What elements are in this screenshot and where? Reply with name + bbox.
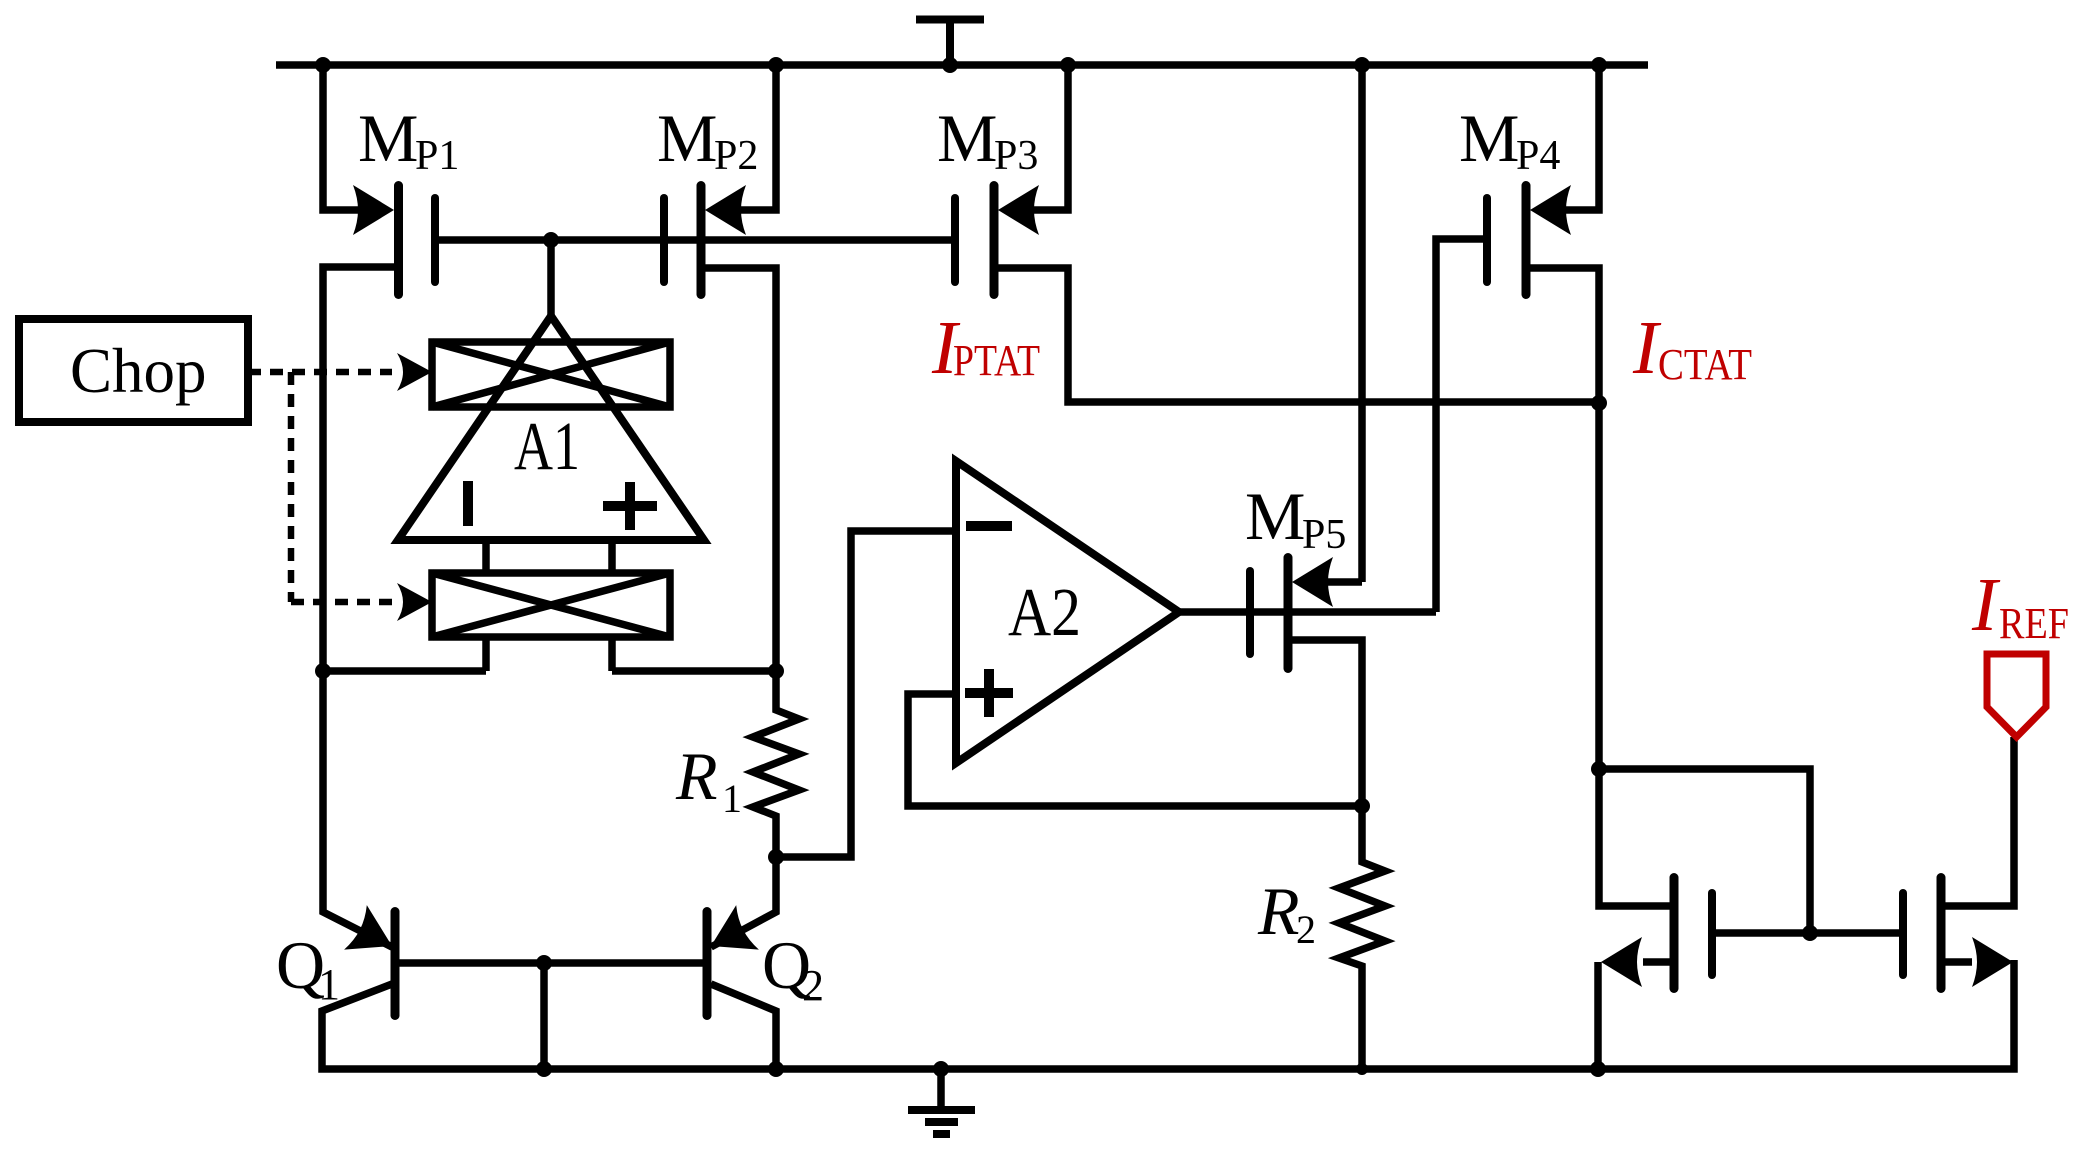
svg-text:R: R (1257, 873, 1300, 949)
svg-text:M: M (1459, 100, 1519, 176)
svg-text:M: M (657, 100, 717, 176)
svg-text:P4: P4 (1516, 133, 1560, 179)
svg-text:P3: P3 (994, 133, 1038, 179)
svg-text:P2: P2 (714, 133, 758, 179)
svg-text:1: 1 (318, 960, 340, 1009)
svg-text:REF: REF (1999, 599, 2069, 648)
svg-text:CTAT: CTAT (1658, 340, 1752, 389)
svg-text:M: M (937, 100, 997, 176)
svg-text:PTAT: PTAT (953, 336, 1040, 385)
svg-text:A2: A2 (1008, 574, 1081, 650)
svg-text:A1: A1 (514, 408, 580, 484)
svg-text:R: R (675, 738, 718, 814)
svg-text:P1: P1 (415, 133, 459, 179)
svg-text:Chop: Chop (70, 336, 207, 406)
svg-text:M: M (358, 100, 418, 176)
svg-text:I: I (1971, 563, 2001, 647)
svg-text:1: 1 (722, 776, 742, 821)
svg-text:2: 2 (802, 961, 824, 1010)
svg-text:P5: P5 (1302, 512, 1346, 558)
svg-text:M: M (1245, 478, 1305, 554)
svg-text:2: 2 (1296, 907, 1316, 952)
